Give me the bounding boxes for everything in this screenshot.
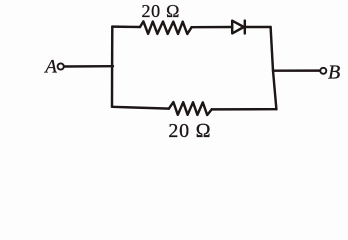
diode D1 triangle: [232, 21, 244, 34]
svg-text:20 Ω: 20 Ω: [168, 120, 210, 142]
node A terminal circle: [58, 63, 64, 69]
diode D1 cathode bar: [244, 21, 246, 34]
wire B branch: [273, 69, 320, 72]
wire right vertical branch: [271, 27, 277, 109]
wire A to left vertical: [64, 65, 113, 68]
wire diode to right vertical: [245, 26, 271, 28]
wire resistor to bottom right corner: [212, 108, 277, 111]
node B terminal circle: [320, 68, 326, 74]
svg-text:B: B: [328, 62, 340, 84]
wire resistor to diode: [192, 26, 233, 29]
wire left vertical branch: [111, 27, 114, 107]
resistor R2 20 ohm (bottom): [169, 102, 212, 115]
svg-text:20 Ω: 20 Ω: [142, 1, 180, 21]
resistor R1 20 ohm (top): [140, 21, 192, 34]
wire top rail left: [112, 25, 140, 28]
wire bottom rail left: [112, 107, 169, 109]
svg-text:A: A: [43, 56, 57, 77]
